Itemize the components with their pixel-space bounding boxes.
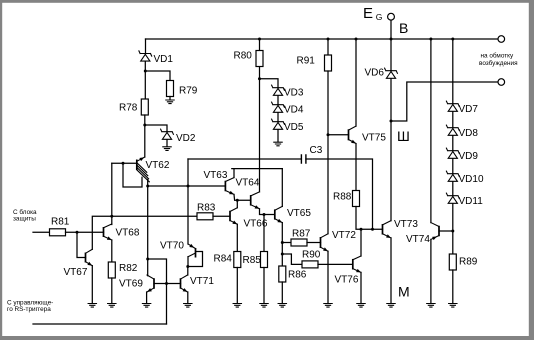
transistor VT62 (multi-collector) <box>137 157 150 182</box>
junction <box>258 77 261 80</box>
junction <box>146 185 149 188</box>
wire R91 down to VT75 base node <box>327 71 329 135</box>
wire VT71 emitter to ground <box>187 292 189 303</box>
junction <box>165 282 168 285</box>
wire VT74 emitter to ground <box>430 239 432 303</box>
svg-text:VT68: VT68 <box>116 228 140 239</box>
wire branch to R85 <box>263 215 265 252</box>
wire R89 to ground <box>452 270 454 303</box>
ground R79 gnd <box>166 100 174 104</box>
wire VT69 base to VT71 base <box>154 283 181 285</box>
wire R85 to ground <box>263 268 265 304</box>
svg-text:R84: R84 <box>214 254 233 265</box>
wire C3 right to VT73 base <box>306 159 373 229</box>
wire R79 to ground <box>169 97 171 100</box>
wire VT72 collector up to R91 <box>327 135 329 234</box>
wire VT65 emitter down through R86 <box>281 223 283 266</box>
transistor VT76 <box>353 256 361 273</box>
wire VT63 base node to C3 <box>188 158 301 160</box>
diode VD8 <box>446 125 459 135</box>
wire VT76 collector up <box>360 229 362 256</box>
transistor VT74 <box>431 223 439 241</box>
wire VT67 emitter to ground <box>91 266 93 303</box>
resistor R86 <box>279 266 307 282</box>
capacitor C3 <box>301 145 322 164</box>
resistor R87 <box>291 229 311 246</box>
svg-text:VD8: VD8 <box>459 128 479 139</box>
junction <box>187 185 190 188</box>
diode VD3 <box>272 85 285 95</box>
svg-text:R86: R86 <box>288 270 307 281</box>
wire VT76 emitter to ground <box>360 272 362 303</box>
wire step to output circle <box>391 82 498 121</box>
frame border bottom <box>0 336 534 340</box>
resistor R84 <box>214 252 241 268</box>
terminal circle E_G <box>388 13 395 20</box>
wire top supply rail <box>146 38 499 40</box>
transistor VT63 <box>225 178 234 195</box>
junction <box>146 258 149 261</box>
wire R78 to VT62 collector node <box>144 115 146 157</box>
svg-text:М: М <box>398 284 410 300</box>
transistor VT68 <box>104 224 112 240</box>
svg-text:VT71: VT71 <box>190 276 214 287</box>
junction <box>236 199 239 202</box>
svg-text:VT74: VT74 <box>406 234 430 245</box>
resistor R81 <box>50 217 70 236</box>
wire VT70 base down <box>187 257 189 267</box>
junction <box>429 38 432 41</box>
svg-text:R89: R89 <box>459 257 478 268</box>
svg-text:VT62: VT62 <box>146 160 170 171</box>
wire R88 down to VT73 base line <box>356 207 383 230</box>
wire VT68 emitter to R82 <box>111 240 113 262</box>
svg-text:VD6: VD6 <box>365 68 385 79</box>
svg-text:возбуждения: возбуждения <box>479 59 518 67</box>
wire VT73 collector up to VD6 node <box>390 121 392 221</box>
svg-text:Ш: Ш <box>397 128 410 144</box>
junction <box>371 228 374 231</box>
svg-text:VT72: VT72 <box>332 230 356 241</box>
resistor R80 <box>234 51 264 67</box>
wire VD3-VD4 <box>277 96 279 105</box>
diode VD11 <box>446 193 459 203</box>
wire VT75 collector to rail <box>355 39 357 126</box>
wire mirror node across <box>148 259 167 324</box>
ground VT69 gnd <box>142 304 150 308</box>
svg-text:R82: R82 <box>119 263 138 274</box>
terminal circle B output <box>498 36 505 43</box>
ground VD2 gnd <box>163 147 171 151</box>
ground VT72 gnd <box>324 304 332 308</box>
svg-text:E: E <box>363 5 373 22</box>
svg-text:R78: R78 <box>119 103 138 114</box>
wire VT70 base-collector loop <box>188 252 203 267</box>
wire VD10-VD11 <box>452 182 454 196</box>
svg-text:VD5: VD5 <box>284 122 304 133</box>
svg-text:R91: R91 <box>297 56 316 67</box>
svg-text:VD11: VD11 <box>459 196 484 207</box>
ground VT74 gnd <box>427 304 435 308</box>
svg-text:R88: R88 <box>333 192 352 203</box>
junction <box>360 228 363 231</box>
svg-text:VT65: VT65 <box>287 208 311 219</box>
wire R90 to VT76 base <box>318 263 353 265</box>
svg-text:защиты: защиты <box>13 215 36 222</box>
junction <box>186 265 189 268</box>
wire VD6 to node <box>390 79 392 121</box>
junction <box>327 38 330 41</box>
wire input from protection block <box>33 231 50 233</box>
wire VT62 collectors down <box>147 180 149 276</box>
wire VD5 to ground <box>277 130 279 142</box>
diode VD10 <box>446 171 459 181</box>
wire VT64 emitter to VT65 base <box>260 209 275 215</box>
wire VD2 to ground <box>166 140 168 147</box>
transistor VT65 <box>275 206 283 222</box>
wire VT74 base to diode chain <box>439 230 453 232</box>
terminal circle field output <box>498 79 505 86</box>
svg-text:VD4: VD4 <box>284 105 304 116</box>
junction <box>122 162 125 165</box>
svg-text:R79: R79 <box>179 86 198 97</box>
junction <box>451 38 454 41</box>
junction <box>143 124 146 127</box>
resistor R83 <box>197 202 216 220</box>
wire R83 to VT66 base <box>213 215 230 217</box>
wire VD11 down to R89 <box>452 204 454 254</box>
diode VD2 <box>161 129 174 139</box>
ground VT67 gnd <box>88 304 96 308</box>
wire rail down to VD6 <box>390 39 392 71</box>
svg-text:VT73: VT73 <box>394 219 418 230</box>
junction <box>281 241 284 244</box>
wire VD9-VD10 <box>452 159 454 174</box>
wire VT65 collector up to bus corner <box>281 169 283 207</box>
svg-text:G: G <box>376 12 383 22</box>
wire VT67 base drop <box>77 232 86 257</box>
resistor R90 <box>302 250 321 268</box>
wire R82 to ground <box>111 278 113 303</box>
wire branch to VD2 <box>145 125 167 132</box>
diode VD9 <box>446 148 459 158</box>
diode VD6 <box>385 68 398 78</box>
junction <box>355 38 358 41</box>
transistor VT75 <box>349 126 357 143</box>
diode VD5 <box>272 119 285 129</box>
resistor R89 <box>449 254 477 270</box>
wire R81 to VT68 base <box>66 231 104 233</box>
svg-text:R90: R90 <box>302 250 321 261</box>
wire node to VT63 base <box>148 185 226 187</box>
svg-text:VT64: VT64 <box>236 178 260 189</box>
wire VT63 collector up to bus corner <box>232 169 282 178</box>
diode VD7 <box>446 101 459 111</box>
diode VD1 <box>139 51 152 61</box>
svg-text:VT76: VT76 <box>335 275 359 286</box>
svg-text:VD10: VD10 <box>459 174 484 185</box>
wire VT62 base <box>112 162 137 164</box>
svg-text:B: B <box>399 20 408 36</box>
svg-text:R81: R81 <box>51 217 70 228</box>
wire branch to R79 <box>145 71 170 81</box>
ground R84 gnd <box>233 304 241 308</box>
transistor VT69 <box>147 275 154 292</box>
junction <box>110 215 113 218</box>
svg-text:VD2: VD2 <box>176 133 196 144</box>
wire bottom RS-trigger line <box>33 323 167 325</box>
junction <box>390 38 393 41</box>
ground VT73 gnd <box>387 304 395 308</box>
svg-text:VD7: VD7 <box>459 104 479 115</box>
svg-text:VD1: VD1 <box>154 54 174 65</box>
wire R80 top to rail <box>259 39 261 51</box>
junction <box>327 133 330 136</box>
wire VT71 collector up to VT70 <box>187 267 189 276</box>
transistor VT64 <box>251 192 260 209</box>
resistor R85 <box>243 252 268 268</box>
wire VT74 collector to rail <box>430 39 432 223</box>
wire branch to VD3 chain <box>260 79 279 88</box>
wire rail to R91 <box>327 39 329 55</box>
svg-text:го RS-триггера: го RS-триггера <box>7 306 51 313</box>
junction <box>451 230 454 233</box>
wire R84 to ground <box>236 268 238 304</box>
wire E_G to rail <box>390 21 392 40</box>
transistor VT71 <box>181 275 188 292</box>
transistor VT67 <box>86 249 93 265</box>
wire VD7-VD8 <box>452 112 454 128</box>
wire VD4-VD5 <box>277 113 279 122</box>
resistor R79 <box>167 81 198 97</box>
ground VT76 gnd <box>357 304 365 308</box>
wire VT72 emitter to ground <box>327 251 329 303</box>
ground VD5 gnd <box>274 142 282 146</box>
junction <box>390 120 393 123</box>
svg-text:VT69: VT69 <box>119 279 143 290</box>
junction <box>263 213 266 216</box>
wire VD1 to R78 <box>144 62 146 100</box>
wire VT64 collector up to R80 <box>259 67 261 192</box>
wire node to R87 <box>282 242 291 244</box>
wire VT75 base <box>328 134 349 136</box>
transistor VT72 <box>321 234 329 251</box>
transistor VT66 <box>230 208 237 225</box>
svg-text:R85: R85 <box>243 255 262 266</box>
svg-text:VT75: VT75 <box>362 133 386 144</box>
ground R82 gnd <box>108 304 116 308</box>
resistor R82 <box>108 262 137 278</box>
svg-text:R87: R87 <box>292 229 311 240</box>
wire VT73 emitter to ground <box>390 238 392 303</box>
wire VD8-VD9 <box>452 136 454 151</box>
wire VT66 collector up <box>236 200 238 207</box>
junction <box>281 253 284 256</box>
diode VD4 <box>272 102 285 112</box>
wire R87 to VT72 base <box>307 242 321 244</box>
wire VT62 base down to VT68 collector <box>111 163 113 224</box>
wire node to R90 step <box>282 254 302 264</box>
svg-text:VT70: VT70 <box>160 241 184 252</box>
wire R86 to ground <box>281 282 283 303</box>
svg-text:на обмотку: на обмотку <box>481 52 515 60</box>
svg-text:VT63: VT63 <box>204 170 228 181</box>
svg-text:VD9: VD9 <box>459 151 479 162</box>
junction <box>258 38 261 41</box>
frame border top <box>0 0 534 3</box>
wire VT62 base loop to collectors <box>123 163 142 187</box>
wire VT75 emitter to R88 <box>355 144 357 191</box>
ground R85 gnd <box>260 304 268 308</box>
ground R86 gnd <box>278 304 286 308</box>
wire VT69 emitter to ground <box>146 292 148 303</box>
junction <box>76 231 79 234</box>
svg-text:R83: R83 <box>197 202 216 213</box>
transistor VT70 <box>188 244 196 258</box>
svg-text:VD3: VD3 <box>284 88 304 99</box>
wire rail to VD1 <box>145 39 147 54</box>
wire rail to VD7 <box>452 39 454 104</box>
svg-text:C3: C3 <box>310 145 323 156</box>
transistor VT73 <box>383 221 392 238</box>
svg-text:VT67: VT67 <box>64 267 88 278</box>
resistor R91 <box>297 55 332 71</box>
frame border left <box>0 0 2 340</box>
ground VT71 gnd <box>184 304 192 308</box>
resistor R88 <box>333 191 360 207</box>
wire VT66 emitter to R84 <box>236 224 238 251</box>
ground R89 gnd <box>449 304 457 308</box>
wire VT63 emitter to VT64 base <box>234 194 251 200</box>
wire VT67 collector up to bus <box>92 216 197 249</box>
frame border right <box>529 0 534 340</box>
junction <box>144 70 147 73</box>
wire x188 vertical (C3 node down to VT70 emitter) <box>187 159 189 244</box>
svg-text:R80: R80 <box>234 51 253 62</box>
resistor R78 <box>119 99 148 115</box>
